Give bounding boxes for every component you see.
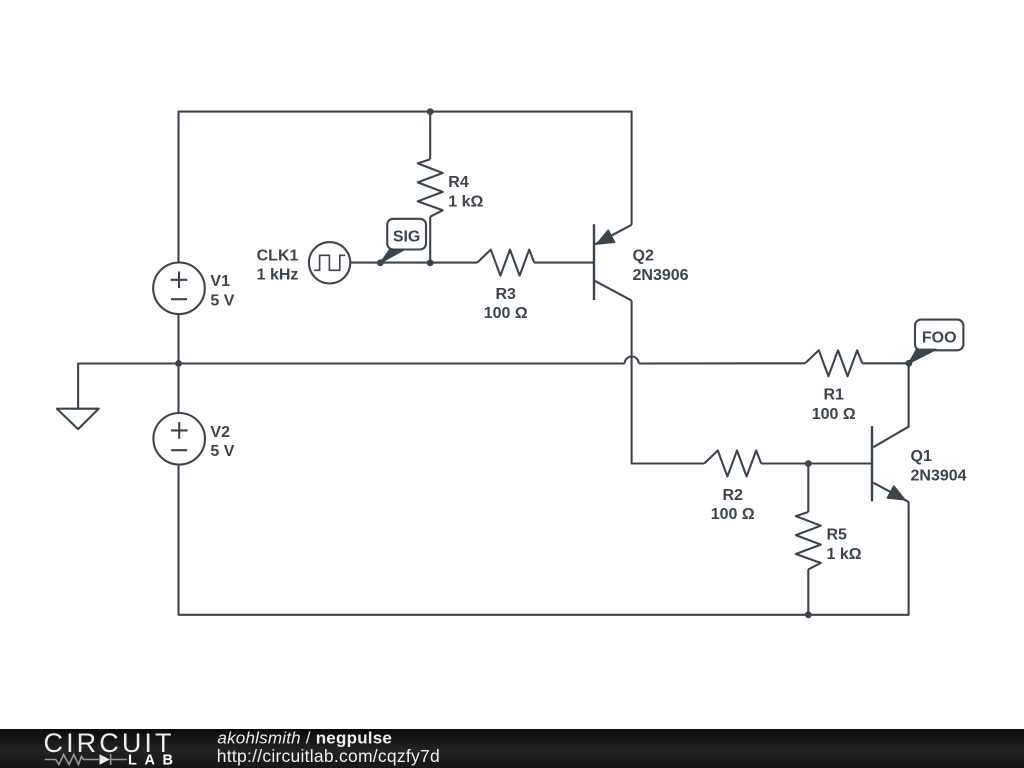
wire R1 to FOO node	[862, 362, 908, 364]
svg-text:2N3904: 2N3904	[911, 467, 967, 484]
junction bottom rail / R5	[805, 611, 812, 618]
svg-text:R2: R2	[722, 487, 743, 504]
wire V2 top	[177, 364, 179, 414]
wire CLK1 to SIG node	[350, 262, 430, 264]
flag FOO	[909, 320, 964, 364]
voltage source V1	[153, 263, 205, 315]
junction R4 / R3 / SIG	[427, 259, 434, 266]
svg-text:CLK1: CLK1	[257, 247, 299, 264]
resistor R1	[805, 350, 862, 376]
wire top rail V+	[179, 112, 632, 263]
flag SIG	[381, 219, 427, 263]
junction V1/V2/ground	[175, 360, 182, 367]
svg-text:http://circuitlab.com/cqzfy7d: http://circuitlab.com/cqzfy7d	[217, 746, 440, 766]
svg-text:akohlsmith / negpulse: akohlsmith / negpulse	[217, 729, 392, 748]
wire hop over Q2 collector	[625, 357, 639, 364]
resistor R5	[796, 464, 821, 615]
svg-text:LAB: LAB	[128, 752, 173, 768]
logo resistor squiggle and diode	[45, 754, 127, 765]
svg-text:R1: R1	[823, 387, 844, 404]
svg-text:Q1: Q1	[911, 448, 932, 465]
svg-text:R3: R3	[495, 286, 516, 303]
svg-text:100 Ω: 100 Ω	[484, 305, 528, 322]
svg-text:1 kHz: 1 kHz	[257, 267, 299, 284]
svg-text:100 Ω: 100 Ω	[711, 506, 755, 523]
svg-text:R4: R4	[448, 174, 469, 191]
resistor R4	[418, 112, 443, 263]
svg-text:V1: V1	[210, 273, 230, 290]
svg-text:1 kΩ: 1 kΩ	[448, 193, 483, 210]
wire V1 bottom to ground rail	[177, 314, 179, 363]
svg-text:5 V: 5 V	[210, 443, 234, 460]
junction R2 / R5	[805, 460, 812, 467]
wire Q2 collector down to R2 row	[632, 301, 705, 464]
voltage source V2	[153, 413, 205, 465]
ground rail wire right segment	[639, 362, 806, 364]
svg-text:FOO: FOO	[922, 330, 957, 347]
svg-text:R5: R5	[827, 527, 848, 544]
junction top rail / R4	[427, 108, 434, 115]
svg-text:2N3906: 2N3906	[633, 267, 689, 284]
ground rail wire	[78, 364, 625, 409]
wire FOO node to Q1 collector	[873, 363, 908, 447]
wire R2 to Q1 base	[761, 462, 872, 464]
transistor Q1 2N3904	[872, 426, 909, 502]
ground symbol	[57, 409, 99, 429]
transistor Q2 2N3906	[594, 224, 632, 300]
svg-text:SIG: SIG	[393, 228, 421, 245]
footer bar	[0, 729, 1024, 768]
resistor R3	[430, 250, 594, 276]
wire V2 bottom / bottom rail	[179, 465, 909, 615]
junction node SIG	[377, 259, 384, 266]
resistor R2	[704, 451, 761, 477]
svg-text:5 V: 5 V	[210, 293, 234, 310]
svg-text:Q2: Q2	[633, 248, 654, 265]
junction node FOO	[906, 360, 913, 367]
svg-text:1 kΩ: 1 kΩ	[827, 546, 862, 563]
svg-text:100 Ω: 100 Ω	[812, 406, 856, 423]
clock source CLK1	[309, 242, 350, 283]
svg-text:V2: V2	[210, 424, 230, 441]
